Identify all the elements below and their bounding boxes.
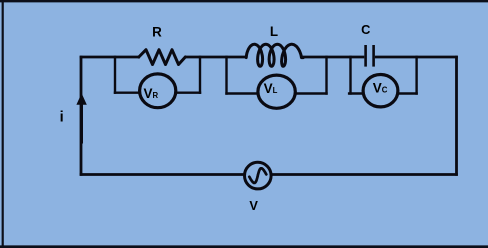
wire: VL branch right vertical — [325, 56, 327, 95]
wire: VL branch left vertical — [225, 56, 227, 95]
wire: top bus between resistor and inductor — [185, 56, 248, 59]
voltmeter VL — [258, 75, 295, 108]
wire: left vertical side — [80, 56, 83, 176]
svg-text:C: C — [361, 22, 370, 37]
svg-text:R: R — [152, 24, 162, 39]
wire: VC branch left horizontal — [348, 92, 364, 94]
inductor L — [246, 44, 303, 66]
wire: VR branch left vertical — [114, 56, 116, 94]
wire: VR branch right horizontal — [176, 91, 202, 93]
wire: bottom bus — [80, 173, 458, 176]
wire: VC branch left vertical — [349, 56, 351, 95]
resistor R — [139, 50, 186, 65]
wire: VL branch right horizontal — [295, 92, 328, 94]
voltmeter VR — [140, 74, 176, 108]
svg-text:L: L — [270, 24, 278, 39]
svg-text:i: i — [60, 110, 64, 126]
capacitor C — [366, 45, 374, 67]
wire: right vertical side — [455, 56, 458, 176]
wire: VR branch left horizontal — [114, 91, 140, 93]
ac source V — [244, 162, 271, 189]
wire: VL branch left horizontal — [225, 92, 258, 94]
wire: VC branch right vertical — [415, 56, 417, 95]
wire: VR branch right vertical — [199, 56, 201, 94]
wire: top bus from capacitor to top-right corner — [375, 56, 458, 59]
wire: top bus left segment — [80, 56, 140, 59]
svg-text:V: V — [249, 198, 258, 213]
wire: top bus between inductor and capacitor — [302, 56, 364, 59]
current arrow i — [76, 93, 86, 143]
voltmeter VC — [363, 75, 398, 107]
wire: VC branch right horizontal — [397, 92, 418, 94]
